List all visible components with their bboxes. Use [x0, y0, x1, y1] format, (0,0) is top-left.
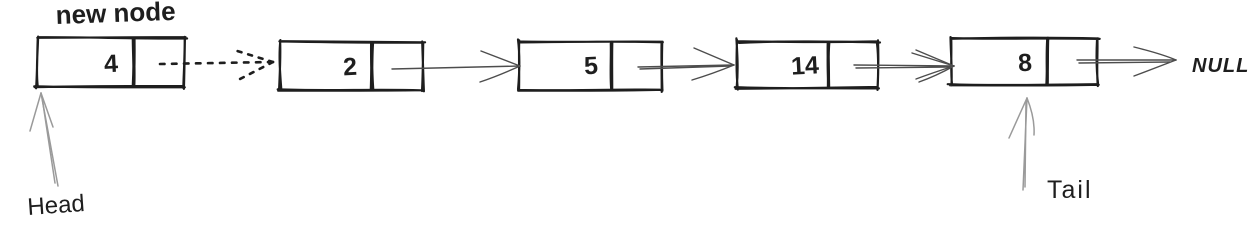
- linked-list node2 box: [278, 40, 425, 91]
- arrow node8 -> NULL: [1077, 47, 1176, 76]
- svg-text:4: 4: [103, 50, 118, 79]
- svg-text:Tail: Tail: [1047, 176, 1093, 204]
- svg-text:NULL: NULL: [1192, 55, 1249, 77]
- Head arrow: [30, 93, 58, 186]
- svg-text:5: 5: [583, 52, 598, 81]
- svg-text:8: 8: [1017, 49, 1032, 78]
- linked-list node8 box: [948, 37, 1100, 86]
- dotted arrow: new node next -> node2: [160, 50, 273, 79]
- linked-list node4 box: [34, 37, 187, 89]
- svg-text:2: 2: [342, 53, 357, 82]
- svg-text:Head: Head: [27, 190, 86, 221]
- arrow node2 -> node5: [392, 51, 520, 82]
- linked-list node14 box: [735, 38, 880, 90]
- svg-text:14: 14: [790, 51, 819, 80]
- svg-text:new node: new node: [55, 0, 176, 30]
- Tail arrow: [1009, 98, 1034, 190]
- linked-list node5 box: [518, 40, 663, 92]
- arrow node5 -> node14: [638, 48, 734, 80]
- arrow node14 -> node8: [854, 50, 954, 82]
